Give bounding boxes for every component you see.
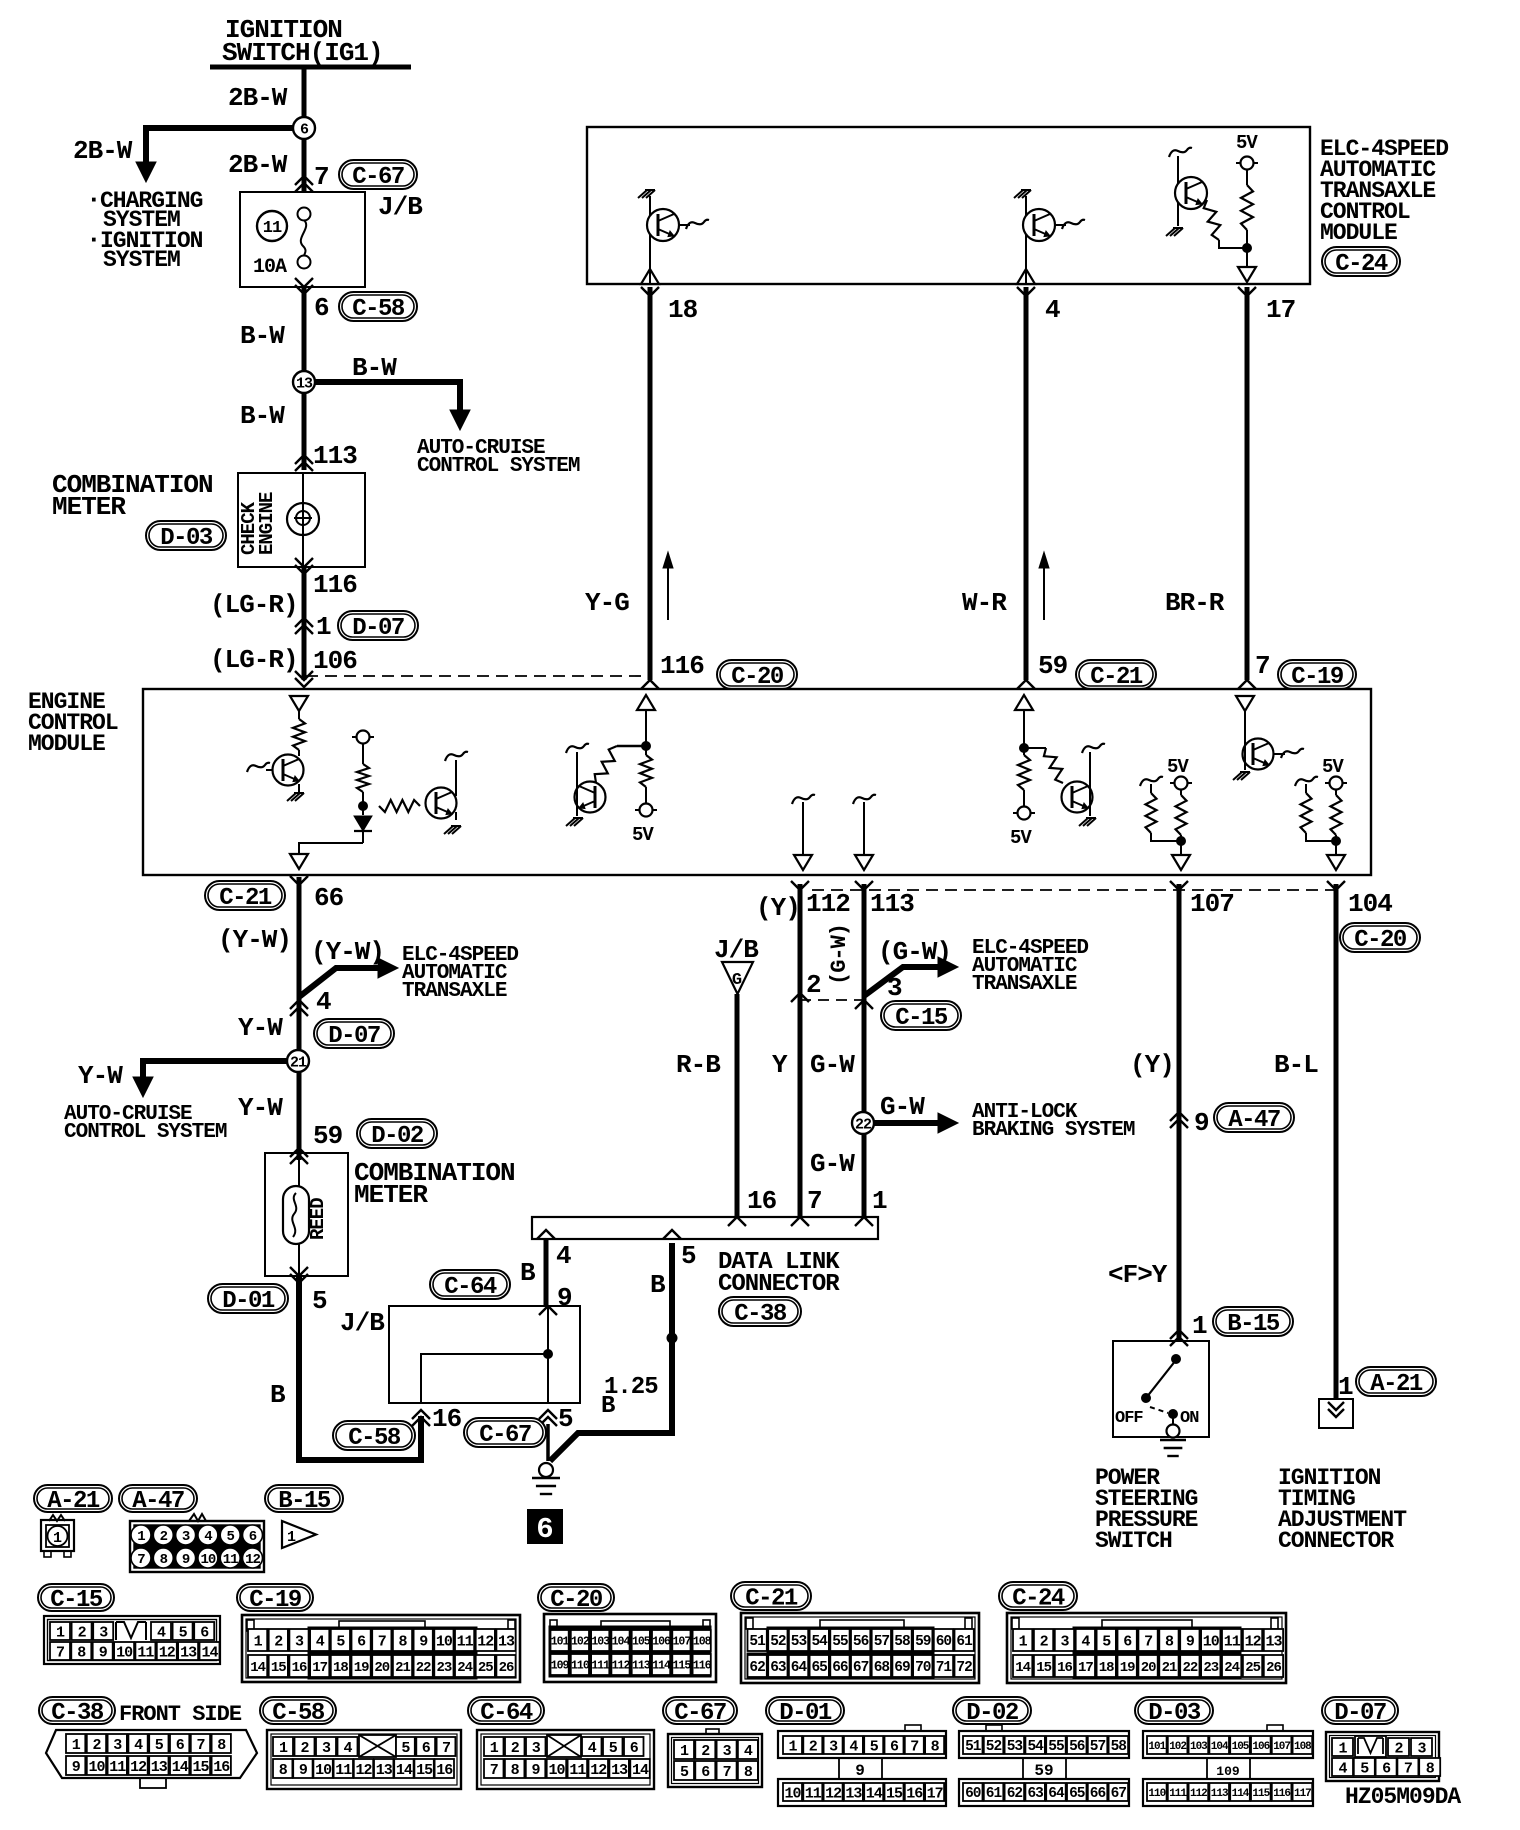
svg-text:SYSTEM: SYSTEM: [103, 247, 180, 273]
arrow to ELC transaxle: [378, 958, 398, 978]
svg-text:102: 102: [1169, 1741, 1186, 1753]
svg-text:11: 11: [109, 1759, 126, 1776]
svg-text:3: 3: [99, 1624, 108, 1641]
svg-text:BR-R: BR-R: [1165, 588, 1225, 618]
svg-text:7: 7: [490, 1762, 498, 1779]
svg-text:25: 25: [1245, 1660, 1260, 1676]
svg-text:5: 5: [336, 1633, 345, 1650]
resistor R13 ECM: [1335, 789, 1337, 795]
chevron pin 16 C-58: [412, 1410, 430, 1419]
wire B from meter to ground run: [299, 1276, 421, 1460]
connector label D-01 (bottom): [766, 1697, 844, 1724]
svg-text:19: 19: [1120, 1660, 1135, 1676]
hook (R12 top): [1295, 777, 1318, 786]
svg-text:22: 22: [416, 1660, 431, 1676]
svg-text:TRANSAXLE: TRANSAXLE: [972, 973, 1077, 996]
svg-text:106: 106: [652, 1636, 671, 1649]
svg-text:C-20: C-20: [1354, 927, 1407, 954]
svg-text:2: 2: [701, 1743, 710, 1760]
svg-text:2: 2: [1040, 1633, 1049, 1650]
svg-text:3: 3: [532, 1740, 541, 1757]
pin 66 triangle (ECM): [290, 696, 308, 711]
ground (Q7): [1079, 818, 1088, 826]
svg-text:D-03: D-03: [160, 525, 213, 552]
fusible link G triangle: [722, 962, 753, 994]
svg-text:D-02: D-02: [966, 1700, 1018, 1727]
svg-text:B: B: [601, 1393, 615, 1420]
svg-text:17: 17: [312, 1660, 327, 1676]
svg-text:·: ·: [86, 185, 101, 215]
junction dot J/B: [544, 1350, 553, 1359]
svg-text:26: 26: [499, 1660, 514, 1676]
svg-text:16: 16: [747, 1186, 777, 1216]
svg-text:BRAKING SYSTEM: BRAKING SYSTEM: [972, 1119, 1135, 1142]
svg-text:4: 4: [1081, 1633, 1090, 1650]
connector label B-15 (1): [1213, 1307, 1293, 1336]
svg-text:CONTROL SYSTEM: CONTROL SYSTEM: [417, 455, 580, 478]
connector label C-64: [430, 1270, 510, 1299]
svg-text:3: 3: [113, 1737, 122, 1754]
5V supply (ELC): [1236, 162, 1258, 164]
svg-text:2B-W: 2B-W: [73, 136, 133, 166]
transistor Q7 ECM: [1062, 782, 1093, 813]
svg-text:6: 6: [200, 1624, 209, 1641]
svg-text:18: 18: [668, 295, 698, 325]
svg-text:7: 7: [1144, 1633, 1152, 1650]
5V supply (ECM H): [1325, 782, 1347, 784]
svg-text:9: 9: [182, 1552, 190, 1568]
wire Y 112 to DLC 7: [798, 884, 803, 1217]
svg-text:111: 111: [591, 1660, 610, 1673]
svg-text:6: 6: [300, 121, 309, 138]
connector label D-07 (bottom): [1322, 1697, 1398, 1724]
svg-text:106: 106: [1252, 1741, 1269, 1753]
connector label D-07: [338, 611, 418, 640]
svg-text:8: 8: [279, 1762, 288, 1779]
svg-text:13: 13: [296, 375, 313, 392]
svg-text:57: 57: [874, 1634, 890, 1650]
wire 2B-W from ignition switch: [302, 67, 307, 192]
svg-text:D-07: D-07: [1334, 1700, 1386, 1727]
chevron pin 4: [1017, 287, 1035, 296]
svg-text:61: 61: [956, 1634, 973, 1650]
wire B from DLC pin 4: [544, 1239, 549, 1306]
wire BR-R (17 to 7): [1245, 287, 1250, 680]
svg-text:7: 7: [807, 1186, 822, 1216]
wire branch 113 to ELC transaxle: [864, 967, 946, 996]
chevron pin 66 out of ECM: [290, 876, 308, 885]
connector pinout D-02: [986, 1725, 1002, 1732]
chevron pin 104 out of ECM: [1327, 881, 1345, 890]
svg-text:13: 13: [611, 1762, 628, 1779]
svg-text:14: 14: [172, 1759, 189, 1776]
chevron pin 59 D-02: [290, 1148, 308, 1157]
svg-text:11: 11: [805, 1785, 822, 1802]
svg-text:18: 18: [1099, 1660, 1114, 1676]
svg-text:5V: 5V: [1167, 756, 1189, 778]
svg-text:116: 116: [693, 1660, 712, 1673]
svg-text:4: 4: [204, 1529, 212, 1545]
svg-text:19: 19: [354, 1660, 369, 1676]
svg-text:5V: 5V: [1236, 132, 1258, 154]
svg-text:5: 5: [1102, 1633, 1111, 1650]
svg-text:14: 14: [396, 1762, 413, 1779]
svg-text:6: 6: [1123, 1633, 1132, 1650]
svg-text:C-64: C-64: [480, 1700, 533, 1727]
svg-text:4: 4: [1045, 295, 1060, 325]
svg-text:D-01: D-01: [222, 1288, 275, 1315]
svg-text:14: 14: [250, 1660, 265, 1676]
svg-text:61: 61: [986, 1786, 1003, 1802]
svg-text:4: 4: [744, 1743, 753, 1760]
chevron pin 18: [641, 287, 659, 296]
svg-text:C-64: C-64: [444, 1274, 497, 1301]
connector pinout D-07: [1326, 1732, 1439, 1781]
svg-text:4: 4: [556, 1241, 571, 1271]
svg-text:8: 8: [744, 1764, 753, 1781]
wire inside reed box: [298, 1153, 300, 1186]
svg-text:6: 6: [314, 293, 329, 323]
svg-text:1: 1: [1192, 1311, 1207, 1341]
svg-text:C-24: C-24: [1335, 251, 1388, 278]
pin 59 triangle (ECM): [1015, 695, 1033, 710]
svg-text:5: 5: [226, 1529, 234, 1545]
svg-text:15: 15: [416, 1762, 433, 1779]
wire 1.25B to ground: [550, 1243, 672, 1461]
svg-text:A-47: A-47: [132, 1488, 184, 1515]
svg-text:101: 101: [551, 1636, 570, 1649]
svg-text:12: 12: [130, 1759, 147, 1776]
chevron pin 107 out of ECM: [1170, 881, 1188, 890]
transistor Q1 ELC: [649, 196, 651, 241]
arrow to ABS: [938, 1113, 958, 1133]
wire (Y-W) pin 66 down: [297, 877, 302, 1000]
svg-text:10: 10: [784, 1785, 801, 1802]
svg-text:CONNECTOR: CONNECTOR: [718, 1271, 840, 1298]
svg-text:111: 111: [1169, 1788, 1187, 1800]
connector label C-58 (16): [333, 1421, 415, 1450]
svg-text:6: 6: [630, 1740, 639, 1757]
arrow up Y-G: [667, 560, 669, 620]
chevron pin 9 top of J/B: [539, 1306, 557, 1315]
svg-text:6: 6: [890, 1738, 899, 1755]
svg-text:1: 1: [680, 1743, 689, 1760]
resistor R4 ECM: [362, 743, 364, 764]
svg-text:(G-W): (G-W): [827, 924, 852, 985]
svg-text:13: 13: [180, 1644, 197, 1661]
svg-text:1: 1: [788, 1738, 797, 1755]
data link connector box: [532, 1217, 878, 1239]
svg-text:J/B: J/B: [714, 935, 759, 965]
pin 7 triangle (ECM): [1236, 696, 1254, 711]
svg-text:Y-W: Y-W: [78, 1061, 123, 1091]
connector label D-01: [208, 1284, 288, 1313]
svg-text:1: 1: [56, 1624, 65, 1641]
svg-text:1: 1: [490, 1740, 499, 1757]
svg-text:2: 2: [806, 970, 821, 1000]
svg-text:13: 13: [151, 1759, 168, 1776]
svg-text:113: 113: [1211, 1788, 1229, 1800]
connector icon A-47: [130, 1521, 264, 1572]
wire branch to ELC transaxle: [299, 968, 387, 997]
svg-text:C-19: C-19: [249, 1587, 301, 1614]
svg-text:6: 6: [701, 1764, 710, 1781]
svg-text:21: 21: [290, 1054, 307, 1071]
fuse element: [298, 208, 311, 221]
chevron DLC pin 7: [791, 1217, 809, 1226]
chevron out of reed box: [290, 1267, 308, 1276]
svg-text:Y-G: Y-G: [585, 588, 629, 618]
svg-text:14: 14: [1015, 1660, 1030, 1676]
svg-text:D-07: D-07: [328, 1023, 380, 1050]
transistor Q5 ECM: [426, 788, 457, 819]
junction dot H: [1332, 837, 1341, 846]
svg-text:2: 2: [809, 1738, 818, 1755]
svg-text:B: B: [520, 1258, 536, 1288]
svg-text:16: 16: [432, 1404, 462, 1434]
junction splice 13: [293, 371, 315, 393]
svg-text:(Y): (Y): [756, 893, 800, 923]
svg-text:66: 66: [1090, 1786, 1106, 1802]
svg-text:TRANSAXLE: TRANSAXLE: [402, 980, 507, 1003]
svg-text:2: 2: [92, 1737, 101, 1754]
svg-text:D-01: D-01: [779, 1700, 832, 1727]
check engine lamp: [287, 503, 319, 535]
svg-text:15: 15: [1036, 1660, 1051, 1676]
svg-text:4: 4: [316, 987, 331, 1017]
connector label A-21 (bottom): [34, 1485, 112, 1512]
ground (Q5): [444, 826, 453, 834]
connector pinout C-15: [44, 1616, 220, 1664]
svg-text:68: 68: [874, 1660, 890, 1676]
svg-text:11: 11: [457, 1633, 474, 1650]
svg-text:71: 71: [936, 1660, 953, 1676]
wire 59 internal: [1023, 710, 1025, 748]
connector label D-03: [146, 521, 226, 550]
svg-text:57: 57: [1090, 1739, 1106, 1755]
svg-text:B: B: [650, 1270, 666, 1300]
connector pinout C-67: [706, 1729, 719, 1735]
svg-text:64: 64: [791, 1660, 808, 1676]
svg-text:8: 8: [160, 1552, 168, 1568]
arrow to auto-cruise (left): [133, 1077, 153, 1097]
connector label A-21 (1): [1356, 1367, 1436, 1396]
chevron out of J/B: [295, 278, 313, 287]
svg-text:C-58: C-58: [352, 296, 405, 323]
chevron pin 5 C-67 bottom: [539, 1410, 557, 1419]
svg-text:101: 101: [1148, 1741, 1166, 1753]
svg-text:7: 7: [723, 1764, 731, 1781]
svg-text:C-21: C-21: [745, 1586, 798, 1613]
connector label C-38 (bottom): [39, 1697, 115, 1724]
svg-text:108: 108: [693, 1636, 712, 1649]
svg-text:2B-W: 2B-W: [228, 83, 288, 113]
svg-text:65: 65: [1069, 1786, 1085, 1802]
svg-text:11: 11: [335, 1762, 352, 1779]
svg-text:14: 14: [632, 1762, 649, 1779]
svg-text:5: 5: [1360, 1760, 1369, 1777]
connector label C-21 (59): [1076, 660, 1156, 689]
svg-text:B-L: B-L: [1274, 1050, 1318, 1080]
arrow to charging system: [136, 162, 156, 182]
junction dot C: [642, 742, 651, 751]
svg-text:Y-W: Y-W: [238, 1093, 283, 1123]
hook (R10 top): [1140, 777, 1163, 786]
svg-text:4: 4: [316, 1633, 325, 1650]
svg-text:D-07: D-07: [352, 615, 404, 642]
svg-text:16: 16: [292, 1660, 307, 1676]
svg-text:B-W: B-W: [352, 353, 397, 383]
svg-text:C-67: C-67: [352, 164, 404, 191]
ground (Q8): [1233, 772, 1242, 780]
wire pin 112 internal: [802, 802, 804, 855]
chevron pin 113 out of ECM: [855, 881, 873, 890]
wire branch to ABS: [874, 1120, 946, 1126]
wire pin17 inside: [1246, 263, 1248, 268]
junction splice 6: [293, 117, 315, 139]
svg-text:6: 6: [536, 1513, 553, 1546]
svg-text:17: 17: [1078, 1660, 1093, 1676]
svg-text:C-58: C-58: [348, 1425, 401, 1452]
svg-text:52: 52: [770, 1634, 786, 1650]
svg-text:1: 1: [279, 1740, 288, 1757]
connector label C-21 (66): [205, 881, 285, 910]
chevron pin 17: [1238, 287, 1256, 296]
5V supply (ECM E): [1013, 812, 1035, 814]
svg-text:(Y): (Y): [1130, 1050, 1174, 1080]
svg-text:17: 17: [927, 1785, 943, 1802]
svg-text:MODULE: MODULE: [1320, 220, 1397, 246]
svg-text:5: 5: [179, 1624, 188, 1641]
svg-text:7: 7: [1255, 651, 1270, 681]
svg-text:55: 55: [1048, 1739, 1064, 1755]
wire inside meter: [302, 473, 304, 567]
5V supply (ECM C): [635, 809, 657, 811]
svg-text:117: 117: [1294, 1788, 1311, 1800]
svg-text:SWITCH: SWITCH: [1095, 1528, 1172, 1554]
resistor R1 ELC: [1204, 200, 1221, 240]
svg-text:1: 1: [1338, 1372, 1353, 1402]
svg-text:1: 1: [1019, 1633, 1028, 1650]
svg-text:G-W: G-W: [880, 1092, 925, 1122]
svg-text:8: 8: [511, 1762, 520, 1779]
wire R-B from J/B G to DLC 16: [735, 994, 740, 1217]
svg-text:METER: METER: [52, 492, 126, 522]
module ENGINE CONTROL MODULE box: [143, 689, 1371, 875]
svg-text:2B-W: 2B-W: [228, 150, 288, 180]
svg-text:REED: REED: [307, 1198, 329, 1240]
chevron pin 7 into ECM: [1238, 680, 1256, 689]
svg-text:9: 9: [299, 1762, 308, 1779]
svg-text:69: 69: [894, 1660, 910, 1676]
svg-text:15: 15: [192, 1759, 209, 1776]
svg-text:22: 22: [855, 1116, 872, 1133]
junction splice 22: [852, 1112, 874, 1134]
svg-text:2: 2: [511, 1740, 520, 1757]
ground ref 6 black box: [528, 1510, 562, 1543]
connector label C-20 (104): [1340, 923, 1420, 952]
connector label C-19 (bottom): [237, 1584, 313, 1611]
svg-text:8: 8: [217, 1737, 226, 1754]
wire (LG-R) 116 to 106: [302, 567, 307, 680]
ground (Q4): [287, 793, 296, 801]
svg-text:5V: 5V: [1010, 827, 1032, 849]
svg-text:D-03: D-03: [1148, 1700, 1201, 1727]
svg-text:C-20: C-20: [731, 664, 784, 691]
transistor Q8 ECM: [1244, 711, 1246, 739]
svg-text:115: 115: [673, 1660, 692, 1673]
svg-text:10: 10: [200, 1552, 215, 1568]
svg-text:10: 10: [88, 1759, 105, 1776]
svg-text:107: 107: [1190, 889, 1234, 919]
svg-text:9: 9: [1194, 1108, 1209, 1138]
svg-text:1: 1: [254, 1633, 263, 1650]
chevron pin 59 into ECM: [1017, 680, 1035, 689]
diode D1 ECM: [362, 806, 364, 815]
svg-text:60: 60: [936, 1634, 952, 1650]
module ELC-4SPEED ATX control module box: [587, 127, 1310, 284]
svg-text:20: 20: [374, 1660, 389, 1676]
svg-text:5: 5: [401, 1740, 410, 1757]
connector label D-02 (bottom): [953, 1697, 1031, 1724]
svg-text:53: 53: [791, 1634, 807, 1650]
ground (ELC Q2): [1014, 190, 1023, 198]
svg-text:51: 51: [965, 1739, 982, 1755]
svg-text:3: 3: [1060, 1633, 1069, 1650]
svg-text:6: 6: [422, 1740, 431, 1757]
svg-text:104: 104: [1348, 889, 1392, 919]
svg-text:13: 13: [498, 1633, 515, 1650]
resistor R6 ECM (diag): [617, 745, 646, 748]
svg-text:5: 5: [312, 1286, 327, 1316]
svg-text:102: 102: [571, 1636, 590, 1649]
wire 116 internal: [645, 710, 647, 746]
svg-text:8: 8: [1426, 1760, 1435, 1777]
wire W-R (4 to 59): [1024, 287, 1029, 680]
connector label C-20 (116): [717, 660, 797, 689]
wire Y-G (18 to 116): [648, 287, 653, 680]
svg-text:59: 59: [1034, 1762, 1053, 1780]
svg-text:8: 8: [398, 1633, 407, 1650]
connector label C-58: [339, 292, 417, 321]
svg-text:5: 5: [680, 1764, 689, 1781]
svg-text:12: 12: [245, 1552, 260, 1568]
svg-text:8: 8: [931, 1738, 940, 1755]
svg-text:23: 23: [1203, 1660, 1218, 1676]
resistor R5 ECM: [379, 800, 420, 812]
svg-text:G-W: G-W: [810, 1050, 855, 1080]
svg-text:3: 3: [295, 1633, 304, 1650]
junction dot E: [1020, 744, 1029, 753]
wire Y-W to splice 21: [297, 1000, 302, 1160]
svg-text:1: 1: [1338, 1740, 1347, 1757]
svg-text:59: 59: [1038, 651, 1068, 681]
svg-text:65: 65: [811, 1660, 827, 1676]
connector label C-20 (bottom): [538, 1584, 614, 1611]
junction block J/B box: [240, 192, 365, 287]
svg-text:12: 12: [355, 1762, 372, 1779]
wire inside J/B: [547, 1306, 549, 1403]
connector pinout C-20: [544, 1614, 716, 1682]
svg-text:B-15: B-15: [1227, 1311, 1280, 1338]
svg-text:113: 113: [870, 889, 914, 919]
connector icon A-21: [49, 1515, 65, 1521]
svg-text:9: 9: [855, 1762, 865, 1780]
svg-text:MODULE: MODULE: [28, 731, 105, 757]
svg-text:5: 5: [681, 1241, 696, 1271]
dashed connector line 106-116: [306, 675, 644, 677]
svg-text:24: 24: [457, 1660, 472, 1676]
